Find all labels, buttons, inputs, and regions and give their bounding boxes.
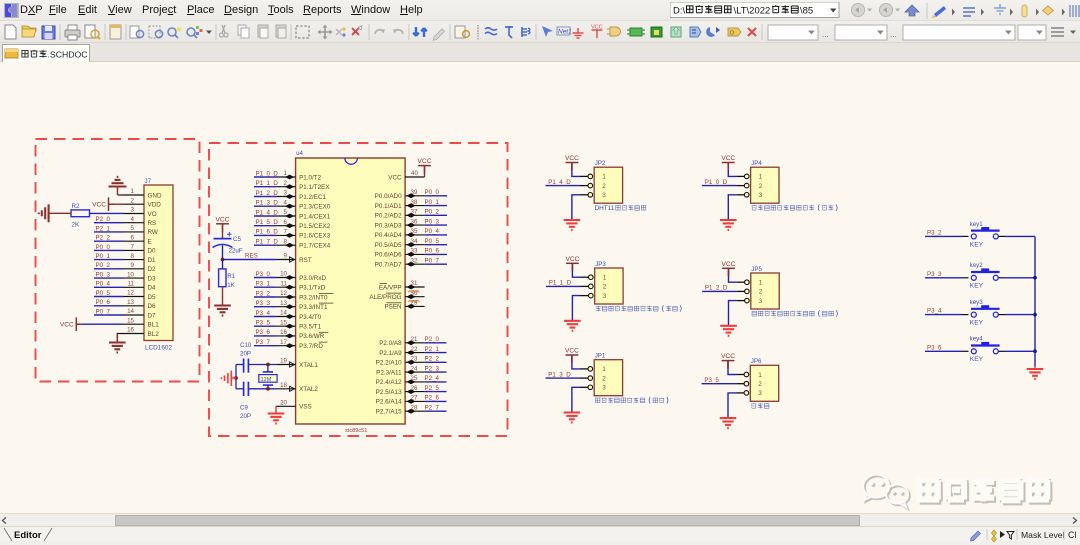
ground on VSS <box>268 406 285 423</box>
svg-text:1: 1 <box>603 275 607 282</box>
MCU pin 18 XTAL2 <box>277 382 319 393</box>
svg-text:2K: 2K <box>72 222 80 229</box>
svg-text:C9: C9 <box>240 405 248 412</box>
MCU pin 10 P3.0/RxD with net P3_0 <box>254 271 326 282</box>
svg-text:8: 8 <box>284 238 288 245</box>
svg-text:JP3: JP3 <box>595 261 606 268</box>
label text (JP1) <box>595 397 668 403</box>
MCU pin 11 P3.1/TxD with net P3_1 <box>254 280 326 291</box>
svg-text:3: 3 <box>759 192 763 199</box>
svg-text:12: 12 <box>127 290 134 297</box>
svg-text:1: 1 <box>758 372 762 379</box>
MCU pin 40 VCC <box>388 170 424 182</box>
svg-text:P0.3/AD3: P0.3/AD3 <box>375 222 402 229</box>
ground (JP1) <box>564 387 581 422</box>
svg-text:3: 3 <box>284 190 288 197</box>
svg-text:P1_0_D: P1_0_D <box>705 179 728 186</box>
wire + net label P2_1 to J7 pin 5 <box>94 225 124 232</box>
svg-text:P1_1_D: P1_1_D <box>256 180 279 187</box>
svg-text:P2_6: P2_6 <box>425 395 440 402</box>
ground left of crystal <box>221 371 236 386</box>
svg-text:P3_5: P3_5 <box>704 377 719 384</box>
power VCC (JP6) <box>721 353 736 374</box>
svg-text:36: 36 <box>411 218 418 225</box>
label text (JP4) <box>752 205 838 211</box>
svg-text:P2_0: P2_0 <box>425 336 440 343</box>
svg-text:ALE/PROG: ALE/PROG <box>369 294 401 301</box>
connector JP4 <box>736 160 779 203</box>
connector JP3 <box>581 261 624 304</box>
ground (JP2) <box>564 195 581 230</box>
svg-text:BL2: BL2 <box>148 331 160 338</box>
crystal Y1 12M <box>259 365 277 389</box>
power VCC (MCU pin40) <box>418 158 432 177</box>
junction key2 rail <box>1033 276 1037 280</box>
MCU pin 13 P3.3/INT1 with net P3_3 <box>254 300 333 311</box>
resistor R1 1K <box>219 260 236 306</box>
MCU pin 28 P2.7/A15 with net P2_7 <box>376 404 447 415</box>
MCU pin 17 P3.7/RD with net P3_7 <box>254 339 328 350</box>
svg-text:P1_2_D: P1_2_D <box>705 285 728 292</box>
dashed region box (LCD module) <box>36 139 200 382</box>
svg-text:9: 9 <box>131 262 135 269</box>
svg-text:D2: D2 <box>148 266 157 273</box>
svg-text:E: E <box>148 239 152 246</box>
MCU pin 21 P2.0/A8 with net P2_0 <box>379 336 446 347</box>
junction key3 rail <box>1033 313 1037 317</box>
svg-text:P3_2: P3_2 <box>256 290 271 297</box>
svg-text:P2.1/A9: P2.1/A9 <box>379 350 402 357</box>
svg-text:JP1: JP1 <box>595 353 606 360</box>
svg-text:4: 4 <box>284 199 288 206</box>
svg-text:R1: R1 <box>227 273 235 280</box>
power VCC (reset circuit) <box>216 216 230 238</box>
MCU pin 15 P3.5/T1 with net P3_5 <box>254 319 322 330</box>
svg-text:P0.5/AD5: P0.5/AD5 <box>375 242 402 249</box>
junction XTAL1 <box>266 363 270 367</box>
svg-text:P1_0_D: P1_0_D <box>256 170 279 177</box>
svg-text:2: 2 <box>758 381 762 388</box>
svg-text:VDD: VDD <box>148 202 162 209</box>
MCU pin 36 P0.3/AD3 with net P0_3 <box>375 218 447 229</box>
MCU pin 20 VSS <box>276 400 312 411</box>
svg-text:P0_5: P0_5 <box>425 238 440 245</box>
svg-text:P2_7: P2_7 <box>425 405 440 412</box>
wire R2 to J7 pin3 VO <box>90 212 124 214</box>
svg-text:P0_4: P0_4 <box>425 228 440 235</box>
svg-text:P1_5_D: P1_5_D <box>256 219 279 226</box>
svg-text:5: 5 <box>131 225 135 232</box>
svg-text:4: 4 <box>131 216 135 223</box>
svg-text:VCC: VCC <box>721 155 735 162</box>
switch key4 KEY with net P3_6 <box>925 336 1035 364</box>
svg-text:KEY: KEY <box>970 320 984 327</box>
svg-text:P1.1/T2EX: P1.1/T2EX <box>299 184 330 191</box>
svg-text:P1_2_D: P1_2_D <box>256 190 279 197</box>
MCU pin 6 P1.5/CEX2 with net P1_5_D <box>254 219 331 230</box>
svg-text:P1.5/CEX2: P1.5/CEX2 <box>299 223 331 230</box>
svg-text:P0_6: P0_6 <box>425 248 440 255</box>
wire + net label P2_0 to J7 pin 4 <box>94 216 124 223</box>
svg-text:P1_1_D: P1_1_D <box>549 280 572 287</box>
svg-text:u4: u4 <box>296 150 303 157</box>
svg-text:P1.6/CEX3: P1.6/CEX3 <box>299 233 331 240</box>
ground (JP3) <box>564 296 581 331</box>
svg-text:P0_7: P0_7 <box>425 258 440 265</box>
svg-text:P2.5/A13: P2.5/A13 <box>376 389 402 396</box>
svg-text:P1_4_D: P1_4_D <box>256 209 279 216</box>
svg-text:JP5: JP5 <box>751 266 762 273</box>
svg-text:P1_3_D: P1_3_D <box>256 200 279 207</box>
svg-text:1: 1 <box>602 174 606 181</box>
svg-text:P3.5/T1: P3.5/T1 <box>299 324 322 331</box>
svg-text:38: 38 <box>411 199 418 206</box>
svg-text:P0_3: P0_3 <box>96 272 111 279</box>
svg-text:P3.1/TxD: P3.1/TxD <box>299 285 326 292</box>
junction key4 rail <box>1033 349 1037 353</box>
ground left of R2 <box>39 204 71 222</box>
svg-text:3: 3 <box>602 192 606 199</box>
svg-text:15: 15 <box>280 319 287 326</box>
MCU pin 1 P1.0/T2 with net P1_0_D <box>254 170 322 181</box>
svg-text:P2_5: P2_5 <box>425 385 440 392</box>
svg-text:12M: 12M <box>261 377 272 383</box>
svg-text:P2.6/A14: P2.6/A14 <box>376 399 402 406</box>
svg-text:1: 1 <box>131 188 135 195</box>
svg-text:P0_7: P0_7 <box>96 308 111 315</box>
wire + net label P1_3_D to JP1 pin 2 <box>546 371 581 378</box>
svg-text:18: 18 <box>280 382 287 389</box>
MCU pin 25 P2.4/A12 with net P2_4 <box>376 375 447 386</box>
svg-text:P1_4_D: P1_4_D <box>548 179 571 186</box>
svg-text:15: 15 <box>127 317 134 324</box>
svg-text:13: 13 <box>127 299 134 306</box>
svg-text:8: 8 <box>131 253 135 260</box>
connector JP1 <box>580 353 623 396</box>
svg-text:20P: 20P <box>240 413 251 420</box>
svg-text:5: 5 <box>284 209 288 216</box>
ground (JP5) <box>720 301 737 336</box>
svg-text:P0_6: P0_6 <box>96 299 111 306</box>
svg-text:JP4: JP4 <box>751 160 762 167</box>
svg-text:1: 1 <box>284 170 288 177</box>
svg-text:22: 22 <box>411 346 418 353</box>
svg-text:P3.0/RxD: P3.0/RxD <box>299 275 326 282</box>
svg-text:P0_2: P0_2 <box>425 209 440 216</box>
svg-text:17: 17 <box>280 339 287 346</box>
svg-text:P2_3: P2_3 <box>425 365 440 372</box>
MCU pin 26 P2.5/A13 with net P2_5 <box>376 385 447 396</box>
svg-text:P1_3_D: P1_3_D <box>548 371 571 378</box>
switch key2 KEY with net P3_3 <box>925 262 1035 290</box>
MCU pin 2 P1.1/T2EX with net P1_1_D <box>254 180 330 191</box>
svg-text:P2_1: P2_1 <box>425 346 440 353</box>
svg-text:P0_1: P0_1 <box>425 199 440 206</box>
net label RES wire to RST <box>223 253 277 260</box>
svg-text:VCC: VCC <box>92 201 106 208</box>
svg-text:2: 2 <box>602 183 606 190</box>
ground (JP6) <box>720 393 737 428</box>
svg-text:11: 11 <box>128 281 135 288</box>
switch key1 KEY with net P3_2 <box>925 221 1035 249</box>
svg-text:40: 40 <box>411 170 418 177</box>
svg-text:14: 14 <box>127 308 134 315</box>
svg-text:PSEN: PSEN <box>384 304 402 311</box>
svg-text:C5: C5 <box>233 236 241 243</box>
svg-text:21: 21 <box>411 336 418 343</box>
wire + net label P1_2_D to JP5 pin 2 <box>702 285 737 292</box>
svg-text:39: 39 <box>411 189 418 196</box>
svg-text:EA/VPP: EA/VPP <box>379 284 402 291</box>
wire + net label P3_5 to JP6 pin 2 <box>702 377 737 384</box>
connector JP2 <box>580 160 623 203</box>
svg-text:P0.2/AD2: P0.2/AD2 <box>375 213 402 220</box>
MCU pin 34 P0.5/AD5 with net P0_5 <box>375 238 447 249</box>
power VCC (JP1) <box>565 348 580 369</box>
svg-text:RS: RS <box>148 220 157 227</box>
svg-text:7: 7 <box>284 229 288 236</box>
power VCC (JP2) <box>565 155 580 176</box>
connector JP5 <box>737 266 780 309</box>
svg-text:VSS: VSS <box>299 404 312 411</box>
svg-text:P3_1: P3_1 <box>256 281 271 288</box>
svg-text:16: 16 <box>280 329 287 336</box>
wire + net label P1_4_D to JP2 pin 2 <box>546 179 581 186</box>
MCU pin 32 P0.7/AD7 with net P0_7 <box>375 257 447 268</box>
svg-text:P1.3/CEX0: P1.3/CEX0 <box>299 204 331 211</box>
svg-text:2: 2 <box>603 284 607 291</box>
svg-text:24: 24 <box>411 365 418 372</box>
svg-text:key2: key2 <box>970 262 984 269</box>
svg-text:P3.3/INT1: P3.3/INT1 <box>299 304 328 311</box>
svg-text:P2.2/A10: P2.2/A10 <box>376 360 402 367</box>
capacitor C9 20P <box>236 382 277 420</box>
svg-text:P0.0/AD0: P0.0/AD0 <box>375 193 402 200</box>
svg-text:28: 28 <box>411 404 418 411</box>
svg-text:Editor: Editor <box>14 530 42 541</box>
svg-text:P1.7/CEX4: P1.7/CEX4 <box>299 243 331 250</box>
label text (JP5) <box>752 310 837 316</box>
svg-text:key3: key3 <box>970 299 984 306</box>
svg-text:3: 3 <box>603 293 607 300</box>
svg-text:RST: RST <box>299 257 312 264</box>
resistor R2 2K <box>71 203 90 229</box>
svg-text:Mask Level: Mask Level <box>1021 530 1065 540</box>
svg-text:VCC: VCC <box>721 353 735 360</box>
svg-text:3: 3 <box>131 207 135 214</box>
svg-text:D: D <box>730 31 734 37</box>
svg-text:P1.2/EC1: P1.2/EC1 <box>299 194 326 201</box>
svg-text:34: 34 <box>411 238 418 245</box>
svg-text:37: 37 <box>411 209 418 216</box>
connector JP6 <box>736 358 779 401</box>
svg-text:VCC: VCC <box>722 261 736 268</box>
MCU pin 22 P2.1/A9 with net P2_1 <box>379 346 446 357</box>
svg-text:20: 20 <box>280 400 287 407</box>
svg-text:KEY: KEY <box>970 356 984 363</box>
svg-text:VCC: VCC <box>216 216 230 223</box>
svg-text:27: 27 <box>411 395 418 402</box>
svg-text:10: 10 <box>127 271 134 278</box>
svg-text:P0_2: P0_2 <box>96 262 111 269</box>
svg-text:VCC: VCC <box>388 174 402 181</box>
svg-text:RES: RES <box>245 253 258 260</box>
wire + net label P0_5 to J7 pin 12 <box>94 290 124 297</box>
svg-text:P1_6_D: P1_6_D <box>256 229 279 236</box>
svg-text:P3_3: P3_3 <box>256 300 271 307</box>
MCU pin 35 P0.4/AD4 with net P0_4 <box>375 228 447 239</box>
svg-text:D5: D5 <box>148 294 157 301</box>
svg-text:BL1: BL1 <box>148 322 160 329</box>
svg-text:P0_4: P0_4 <box>96 281 111 288</box>
svg-text:P0_0: P0_0 <box>425 189 440 196</box>
svg-text:LCD1602: LCD1602 <box>145 345 172 352</box>
svg-text:...: ... <box>822 30 829 39</box>
svg-text:J7: J7 <box>145 178 152 185</box>
junction node RES <box>221 258 225 262</box>
ground (keys) <box>1027 367 1044 379</box>
svg-text:1: 1 <box>759 280 763 287</box>
svg-text:9: 9 <box>284 253 288 260</box>
svg-text:7: 7 <box>131 244 135 251</box>
svg-text:13: 13 <box>280 300 287 307</box>
ground (inverted) on J7 pin 1 <box>109 177 127 195</box>
MCU pin 3 P1.2/EC1 with net P1_2_D <box>254 190 327 201</box>
label text (JP6) <box>751 403 769 409</box>
svg-text:2: 2 <box>284 180 288 187</box>
svg-text:P3_4: P3_4 <box>927 308 942 315</box>
svg-text:6: 6 <box>284 219 288 226</box>
svg-text:P0.4/AD4: P0.4/AD4 <box>375 232 402 239</box>
svg-text:P2.7/A15: P2.7/A15 <box>376 409 402 416</box>
svg-text:VCC: VCC <box>60 321 74 328</box>
svg-text:1: 1 <box>602 366 606 373</box>
svg-text:2: 2 <box>131 197 135 204</box>
wire + net label P0_7 to J7 pin 14 <box>94 308 124 315</box>
svg-text:VCC: VCC <box>565 155 579 162</box>
MCU pin 27 P2.6/A14 with net P2_6 <box>376 395 447 406</box>
svg-text:P0_3: P0_3 <box>425 218 440 225</box>
ground (JP4) <box>720 195 737 230</box>
svg-text:P1_7_D: P1_7_D <box>256 239 279 246</box>
svg-text:JP2: JP2 <box>595 160 606 167</box>
power VCC (JP3) <box>565 256 580 277</box>
svg-text:XTAL2: XTAL2 <box>299 386 318 393</box>
svg-text:GND: GND <box>148 192 162 199</box>
MCU U4 stc89c51 body <box>296 150 406 434</box>
MCU pin 16 P3.6/WR with net P3_6 <box>254 329 328 340</box>
MCU pin 12 P3.2/INT0 with net P3_2 <box>254 290 333 301</box>
junction crystal rail <box>234 376 238 380</box>
svg-text:19: 19 <box>280 358 287 365</box>
svg-text:35: 35 <box>411 228 418 235</box>
svg-text:3: 3 <box>602 385 606 392</box>
svg-text:KEY: KEY <box>970 241 984 248</box>
MCU pin 38 P0.1/AD1 with net P0_1 <box>375 199 447 210</box>
svg-text:KEY: KEY <box>970 283 984 290</box>
svg-text:2: 2 <box>602 375 606 382</box>
svg-text:P1.4/CEX1: P1.4/CEX1 <box>299 213 331 220</box>
wire + net label P0_4 to J7 pin 11 <box>94 281 124 288</box>
svg-text:D0: D0 <box>148 248 157 255</box>
MCU pin 9 RST <box>277 253 312 264</box>
svg-text:D4: D4 <box>148 285 157 292</box>
capacitor C10 20P <box>236 342 277 373</box>
svg-text:P3.7/RD: P3.7/RD <box>299 343 323 350</box>
svg-text:P2.0/A8: P2.0/A8 <box>379 340 402 347</box>
svg-text:P2_1: P2_1 <box>96 225 111 232</box>
svg-text:P2_0: P2_0 <box>96 216 111 223</box>
power VCC to J7 pin 15 BL1 <box>60 317 124 331</box>
svg-text:23: 23 <box>411 356 418 363</box>
wire key common rail <box>1034 236 1036 366</box>
switch key3 KEY with net P3_4 <box>925 299 1035 327</box>
svg-text:P3_5: P3_5 <box>256 320 271 327</box>
svg-text:key1: key1 <box>970 221 984 228</box>
svg-text:VCC: VCC <box>565 256 579 263</box>
power VCC (JP4) <box>721 155 736 176</box>
MCU pin 24 P2.3/A11 with net P2_3 <box>376 365 446 376</box>
wire + net label P0_0 to J7 pin 7 <box>94 244 124 251</box>
svg-text:25: 25 <box>411 375 418 382</box>
svg-text:key4: key4 <box>970 336 984 343</box>
MCU pin 29 PSEN <box>384 300 424 311</box>
wire left rail of crystal <box>235 365 237 389</box>
svg-text:P2.3/A11: P2.3/A11 <box>376 369 402 376</box>
svg-text:R2: R2 <box>72 203 80 210</box>
svg-text:31: 31 <box>411 280 418 287</box>
svg-text:XTAL1: XTAL1 <box>299 362 318 369</box>
svg-text:20P: 20P <box>240 350 251 357</box>
svg-text:P2_2: P2_2 <box>425 356 440 363</box>
svg-text:P3_6: P3_6 <box>256 329 271 336</box>
svg-text:P0_5: P0_5 <box>96 290 111 297</box>
svg-text:1K: 1K <box>227 282 235 289</box>
dashed region box (MCU) <box>209 143 508 436</box>
svg-text:P0_1: P0_1 <box>96 253 111 260</box>
svg-text:P0.6/AD6: P0.6/AD6 <box>375 252 402 259</box>
svg-text:11: 11 <box>281 280 288 287</box>
svg-text:VCC: VCC <box>591 25 603 31</box>
svg-text:stc89c51: stc89c51 <box>345 428 367 434</box>
svg-text:D3: D3 <box>148 275 157 282</box>
svg-text:1: 1 <box>759 174 763 181</box>
svg-text:D1: D1 <box>148 257 157 264</box>
svg-text:P3_2: P3_2 <box>927 230 942 237</box>
wire + net label P0_2 to J7 pin 9 <box>94 262 124 269</box>
wire + net label P2_2 to J7 pin 6 <box>94 235 124 242</box>
wire + net label P0_6 to J7 pin 13 <box>94 299 124 306</box>
MCU pin 31 EA/VPP <box>379 280 425 291</box>
capacitor C5 22uF (electrolytic) <box>213 232 243 260</box>
svg-text:P3_0: P3_0 <box>256 271 271 278</box>
svg-text:D7: D7 <box>148 312 157 319</box>
svg-text:JP6: JP6 <box>751 358 762 365</box>
svg-text:VCC: VCC <box>418 158 432 165</box>
MCU pin 39 P0.0/AD0 with net P0_0 <box>375 189 447 200</box>
svg-text:10: 10 <box>280 271 287 278</box>
svg-text:33: 33 <box>411 248 418 255</box>
label text (JP3) <box>596 305 682 311</box>
svg-text:26: 26 <box>411 385 418 392</box>
power VCC (JP5) <box>722 261 737 282</box>
MCU pin 23 P2.2/A10 with net P2_2 <box>376 356 447 367</box>
label text (JP2) <box>595 205 647 212</box>
wire + net label P0_1 to J7 pin 8 <box>94 253 124 260</box>
svg-text:2: 2 <box>759 289 763 296</box>
ground on J7 pin 16 BL2 <box>109 333 126 352</box>
svg-text:2: 2 <box>759 183 763 190</box>
